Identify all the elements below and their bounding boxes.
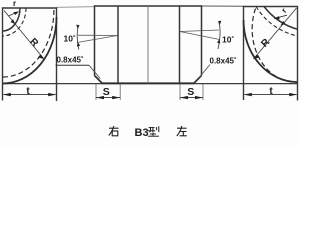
dimension t right: dim line [245,94,297,96]
middle view outline with chamfers [95,6,202,76]
dimension 10 deg right: upper ray [180,30,219,32]
dimension S left: extension lines [95,84,97,100]
left view big dashed arc [3,10,54,77]
dimension t left: arrow right [48,93,56,96]
right view small dashed arc [256,7,298,37]
dimension 10 deg left: lower ray [77,36,118,43]
caption: character zuo (left) [177,126,187,136]
dimension S right: dim line [180,97,203,99]
left view outline [3,8,57,101]
chamfer bottom-left [95,76,103,84]
wire: global bottom line across all views [3,83,298,85]
svg-text:S: S [103,86,110,98]
right view small solid arc [264,7,298,30]
svg-text:0.8x45°: 0.8x45° [210,57,237,66]
dimension R right: leader line [254,8,297,59]
wire: top connector right gap [201,5,244,7]
dimension 10 deg left: arrow down [77,42,80,46]
svg-text:B3: B3 [135,127,149,139]
dimension t right: arrow right [289,93,297,96]
dimension R right: arrow on small arc [281,21,286,26]
dimension R left: arrow lower [38,54,44,59]
wire: top connector left gap [57,6,96,9]
dimension t right: arrow left [244,93,252,96]
leader 0.8x45 left [89,65,100,78]
svg-text:0.8x45°: 0.8x45° [57,56,84,65]
chamfer bottom-right [194,76,202,84]
dimension t left: dim line [4,94,56,96]
svg-text:S: S [187,86,194,98]
caption: character you (right) [109,126,119,136]
dimension r left: leader arrow [9,12,18,16]
middle center line [147,6,149,83]
right view big dashed arc [252,9,296,83]
svg-text:r: r [13,0,16,8]
dimension r right: leader arrow [276,15,288,18]
dimension R left: leader line [4,11,44,60]
left view big solid arc [3,17,57,84]
dimension 10 deg right: arrow up [218,21,221,25]
label 0.8x45 left underline [56,64,90,66]
wire: middle view bottom edge (thicker) [102,82,195,84]
middle inner vertical right [179,6,181,83]
dimension 10 deg left: angle arc [77,26,79,50]
dimension 10 deg right: lower ray [180,32,220,40]
dimension R left: arrow on small arc [11,19,16,24]
caption: character xing (type) [148,126,159,136]
dimension S right: arrows [180,96,188,99]
middle inner vertical left [117,6,119,83]
dimension S left: dim line [96,97,120,99]
dimension R right: arrow lower [254,54,260,59]
dimension 10 deg right: angle arc [218,22,220,50]
dimension 10 deg left: arrow up [76,25,79,29]
right view outline [244,7,298,101]
right view big solid arc [244,20,298,82]
left view small solid arc [3,8,21,31]
dimension S right: extension lines [179,84,181,100]
left view small dashed arc [3,8,27,36]
dimension S left: arrows [96,96,104,99]
leader 0.8x45 right [199,65,210,78]
dimension t left: arrow left [3,93,11,96]
dimension 10 deg right: arrow down [217,39,220,43]
dimension 10 deg left: upper ray [78,34,118,36]
